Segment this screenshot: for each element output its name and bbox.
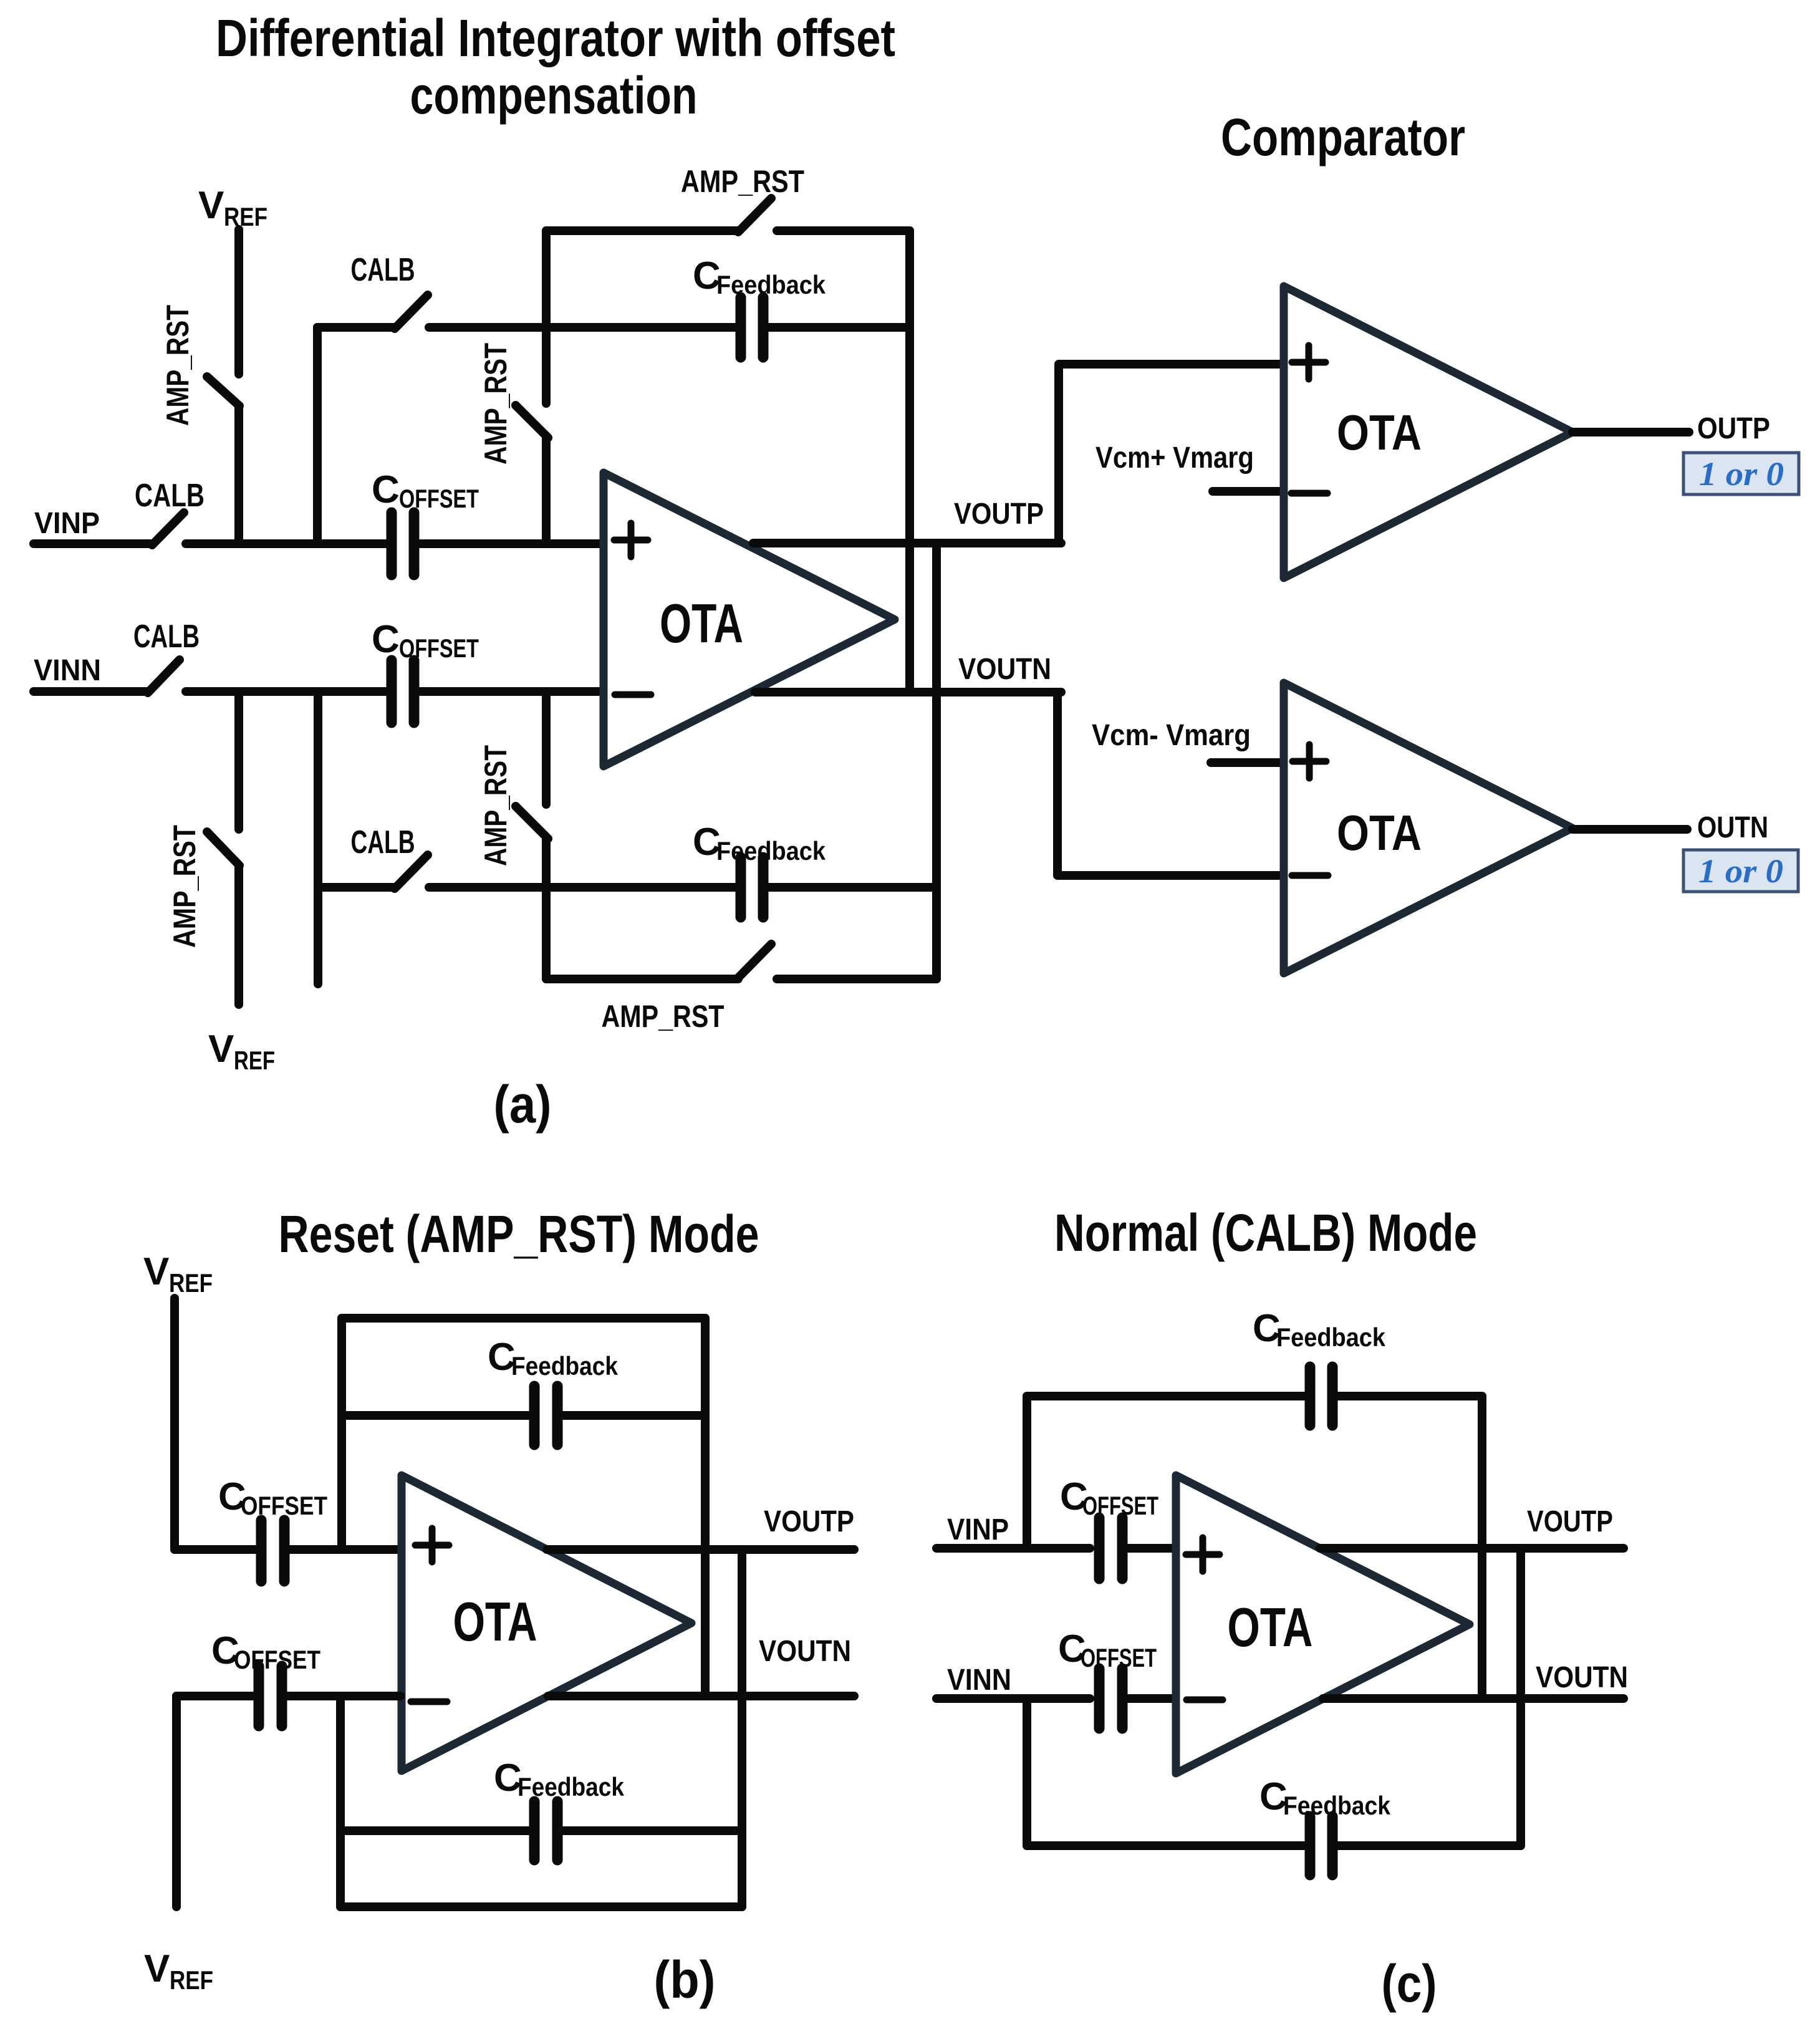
wire AMP_RST bottom line (left segment) [546, 975, 738, 983]
net VREF label (bottom) [208, 1028, 275, 1075]
wire bottom CFeedback line (b) right [563, 1826, 742, 1835]
op-amp U5 OTA (normal mode) [1176, 1475, 1470, 1773]
wire VREF (b) bottom vertical [172, 1696, 181, 1907]
label COFFSET (VINN) [372, 618, 479, 663]
label CALB (bottom loop switch) [351, 824, 415, 860]
svg-text:VINP: VINP [947, 1513, 1009, 1546]
wire VREF bottom vertical (upper segment) [234, 692, 243, 829]
svg-text:OFFSET: OFFSET [1082, 1491, 1158, 1520]
label AMP_RST (rotated, + node switch) [478, 343, 513, 465]
svg-text:OTA: OTA [1337, 405, 1422, 460]
op-amp U2 OTA (comparator OUTP) [1284, 286, 1572, 578]
capacitor CFeedback (bottom loop) [741, 857, 763, 917]
svg-text:(b): (b) [654, 1950, 716, 2009]
node VOUTP label [954, 498, 1044, 531]
switch AMP_RST on - node vertical (arm) [516, 806, 548, 839]
op-amp U3 + input mark [1293, 745, 1326, 778]
wire AMP_RST bottom line (right segment) [777, 975, 936, 983]
svg-text:AMP_RST: AMP_RST [478, 343, 513, 465]
label AMP_RST (rotated, VREF top switch) [160, 305, 195, 426]
svg-text:OTA: OTA [453, 1591, 537, 1652]
svg-text:V: V [198, 184, 224, 227]
svg-text:Reset (AMP_RST) Mode: Reset (AMP_RST) Mode [279, 1205, 759, 1263]
wire CALB top branch vertical [313, 327, 322, 544]
svg-text:CALB: CALB [351, 252, 415, 288]
switch CALB on VINP input (arm) [152, 513, 184, 545]
label AMP_RST (rotated, - node switch) [478, 745, 513, 866]
svg-text:OFFSET: OFFSET [241, 1491, 327, 1520]
wire CALB/CFeedback top line (switch to cap) [429, 323, 735, 332]
svg-text:compensation: compensation [410, 66, 698, 125]
op-amp U2 - input mark [1291, 490, 1327, 497]
capacitor COFFSET (b, + path) [261, 1520, 284, 1581]
svg-text:VINN: VINN [34, 654, 101, 687]
svg-text:REF: REF [234, 1046, 275, 1075]
switch AMP_RST on VREF top branch (arm) [207, 377, 239, 406]
svg-text:Feedback: Feedback [1283, 1791, 1391, 1820]
op-amp U1 label OTA [660, 592, 743, 654]
wire - node vertical to bottom loop (lower segment) [542, 839, 551, 979]
wire VINP rail to COFFSET [186, 539, 385, 548]
label COFFSET (c bottom) [1058, 1627, 1157, 1672]
capacitor CFeedback (c top loop) [1310, 1367, 1332, 1425]
label Vcm+ Vmarg [1095, 441, 1254, 475]
op-amp U2 + input mark [1292, 345, 1326, 379]
svg-text:(c): (c) [1382, 1954, 1437, 2013]
label COFFSET (VINP) [372, 468, 479, 513]
panel label (b) [654, 1950, 716, 2009]
svg-text:Normal (CALB) Mode: Normal (CALB) Mode [1054, 1203, 1477, 1262]
op-amp U4 label OTA [453, 1591, 537, 1652]
wire VOUTN rail (b) [548, 1692, 854, 1700]
label CALB (top loop switch) [351, 252, 415, 288]
capacitor COFFSET (c, + path) [1099, 1518, 1122, 1579]
wire bottom loop line (c) right [1338, 1841, 1521, 1850]
wire + rail (b) COFFSET to OTA [290, 1545, 400, 1554]
node VOUTP label (c) [1527, 1505, 1613, 1538]
wire CALB bottom branch vertical [314, 692, 322, 984]
wire bottom loop bottom line (b, closed AMP_RST) [340, 1902, 742, 1911]
wire upper loop top line (b, closed AMP_RST) [342, 1314, 705, 1323]
op-amp U2 label OTA [1337, 405, 1422, 460]
wire top loop right vertical (c) [1478, 1396, 1486, 1699]
wire - rail (b) from VREF to COFFSET [176, 1692, 253, 1700]
wire + node vertical to rail (lower segment) [542, 438, 551, 544]
wire cross vertical (b, VOUTP to bottom loop) [738, 1550, 746, 1907]
svg-text:Feedback: Feedback [716, 836, 826, 865]
wire CALB/CFeedback bottom line (left of switch) [318, 883, 395, 892]
op-amp U3 OTA (comparator OUTN) [1284, 683, 1572, 973]
node VOUTN label (c) [1536, 1661, 1628, 1694]
label AMP_RST (bottom loop) [602, 999, 725, 1034]
wire bottom loop left vertical (b) [336, 1696, 345, 1907]
wire VREF top vertical (lower segment) [234, 406, 243, 544]
wire VOUTN rail (c) [1323, 1694, 1624, 1703]
svg-text:Feedback: Feedback [1276, 1323, 1386, 1352]
wire CFeedback bottom line (cap to right edge) [769, 883, 936, 892]
output value box 1 or 0 (OUTP) [1683, 453, 1799, 494]
svg-text:CALB: CALB [135, 478, 205, 514]
node VOUTN label (b) [759, 1635, 851, 1668]
wire VOUTP rail [753, 539, 1061, 547]
op-amp U1 OTA (differential integrator) [604, 473, 895, 766]
switch AMP_RST on VREF bottom branch (arm) [207, 832, 239, 865]
svg-text:OFFSET: OFFSET [1081, 1643, 1157, 1672]
label CFeedback (c bottom) [1259, 1775, 1391, 1820]
wire Vcm- Vmarg stub to comparator 2 + input [1211, 758, 1283, 767]
node VOUTN label [958, 653, 1051, 686]
svg-text:OFFSET: OFFSET [234, 1645, 320, 1674]
svg-text:REF: REF [169, 1268, 213, 1298]
node VINP label (c) [947, 1513, 1009, 1546]
wire VREF (b) top vertical [170, 1298, 179, 1550]
svg-text:Comparator: Comparator [1221, 108, 1465, 166]
node OUTN label [1697, 811, 1768, 844]
wire CALB/CFeedback bottom line (switch to cap) [429, 883, 735, 892]
svg-text:1 or 0: 1 or 0 [1698, 852, 1783, 890]
wire VOUTN to comparator 2 - input [1057, 692, 1283, 875]
wire upper CFeedback line (b) right [563, 1411, 705, 1420]
output value box 1 or 0 (OUTN) [1683, 850, 1798, 892]
capacitor CFeedback (c bottom loop) [1310, 1816, 1332, 1875]
wire - node vertical (upper segment) [542, 692, 551, 804]
op-amp U3 label OTA [1337, 805, 1422, 860]
wire VREF bottom vertical (lower segment) [234, 865, 243, 1005]
wire Vcm+ Vmarg stub to comparator 1 - input [1213, 487, 1283, 496]
wire top loop line (c) left [1027, 1392, 1304, 1400]
title: Reset (AMP_RST) Mode [279, 1205, 759, 1263]
wire cross vertical (c, VOUTP to bottom loop) [1516, 1548, 1525, 1846]
wire - rail (b) COFFSET to OTA [287, 1692, 400, 1700]
capacitor COFFSET (VINP path) [392, 513, 414, 575]
svg-text:(a): (a) [494, 1075, 552, 1134]
title: Comparator [1221, 108, 1465, 166]
wire bottom loop left vertical (c) [1023, 1699, 1031, 1846]
svg-text:Feedback: Feedback [511, 1351, 619, 1381]
svg-text:REF: REF [224, 202, 267, 231]
op-amp U1 - input mark [615, 692, 651, 698]
wire CFeedback top line (cap to right edge) [769, 323, 910, 332]
svg-text:V: V [144, 1947, 170, 1990]
wire CALB/CFeedback top line (left of switch) [317, 323, 395, 332]
wire VOUTN rail [755, 688, 1061, 696]
wire top loop right vertical (to VOUTN rail) [905, 231, 914, 692]
title: Normal (CALB) Mode [1054, 1203, 1477, 1262]
wire top loop left vertical (c) [1023, 1396, 1031, 1548]
net VREF label (top) [198, 184, 267, 231]
label CFeedback (bottom loop) [693, 821, 826, 865]
node VINN label [34, 654, 101, 687]
wire upper CFeedback line (b) left [342, 1411, 529, 1420]
svg-text:C: C [372, 468, 400, 511]
svg-text:VOUTP: VOUTP [764, 1505, 854, 1538]
wire bottom CFeedback line (b) left [340, 1826, 529, 1835]
label CFeedback (b bottom) [494, 1757, 625, 1801]
wire VINP input segment [34, 539, 152, 548]
label COFFSET (b top) [218, 1475, 327, 1520]
wire upper loop left vertical (b) [337, 1318, 346, 1550]
wire VOUTP rail (b) [547, 1545, 854, 1554]
capacitor CFeedback (b bottom loop) [534, 1801, 557, 1860]
wire VINN rail to OTA - input [420, 687, 602, 696]
label CFeedback (top loop) [693, 254, 826, 299]
svg-text:AMP_RST: AMP_RST [681, 164, 804, 199]
wire VOUTP to comparator 1 + input [1059, 364, 1283, 543]
capacitor COFFSET (VINN path) [392, 660, 414, 723]
label Vcm- Vmarg [1092, 719, 1251, 752]
label COFFSET (b bottom) [211, 1629, 320, 1674]
svg-text:VOUTP: VOUTP [1527, 1505, 1613, 1538]
svg-text:VOUTN: VOUTN [759, 1635, 851, 1668]
svg-text:AMP_RST: AMP_RST [160, 305, 195, 426]
wire VINN rail to COFFSET [186, 687, 385, 696]
svg-text:V: V [143, 1250, 169, 1293]
capacitor COFFSET (c, - path) [1099, 1669, 1122, 1728]
wire VOUTP rail (c) [1320, 1544, 1624, 1553]
svg-text:Feedback: Feedback [518, 1772, 625, 1801]
svg-text:1 or 0: 1 or 0 [1699, 455, 1784, 493]
wire AMP_RST top line (right segment) [777, 226, 910, 235]
switch AMP_RST top loop (arm) [738, 198, 771, 232]
wire VINP rail to OTA + input [420, 539, 602, 548]
op-amp U3 - input mark [1292, 872, 1328, 879]
node VINP label [34, 507, 100, 540]
op-amp U5 + input mark [1186, 1538, 1220, 1571]
panel label (c) [1382, 1954, 1437, 2013]
wire VINP rail (c) input segment [936, 1544, 1090, 1553]
switch AMP_RST bottom loop (arm) [738, 944, 771, 978]
wire VINP rail (c) to OTA [1128, 1544, 1175, 1553]
wire + node vertical to top loop (upper segment) [542, 231, 551, 403]
svg-text:Feedback: Feedback [716, 270, 826, 299]
wire top loop line (c) right [1338, 1392, 1482, 1400]
svg-text:OFFSET: OFFSET [399, 634, 479, 663]
wire comparator 2 output [1572, 825, 1687, 834]
switch CALB bottom (arm) [395, 855, 428, 889]
svg-text:OUTN: OUTN [1697, 811, 1768, 844]
label CFeedback (b upper) [488, 1336, 619, 1381]
node OUTP label [1697, 412, 1770, 445]
net VREF label (b bottom) [144, 1947, 213, 1995]
label CFeedback (c top) [1253, 1307, 1386, 1352]
op-amp U4 + input mark [415, 1528, 449, 1562]
label CALB (VINP switch) [135, 478, 205, 514]
svg-text:AMP_RST: AMP_RST [167, 825, 202, 948]
label COFFSET (c top) [1060, 1475, 1158, 1520]
svg-text:Vcm+ Vmarg: Vcm+ Vmarg [1095, 441, 1254, 475]
capacitor CFeedback (b upper loop) [534, 1386, 557, 1445]
node VINN label (c) [947, 1664, 1011, 1697]
op-amp U5 - input mark [1187, 1697, 1223, 1704]
wire + rail (b) from VREF to COFFSET [175, 1545, 255, 1554]
svg-text:AMP_RST: AMP_RST [602, 999, 725, 1034]
switch AMP_RST on + node vertical (arm) [516, 405, 548, 438]
switch CALB top (arm) [395, 295, 428, 329]
op-amp U1 + input mark [614, 523, 648, 557]
svg-text:OTA: OTA [1337, 805, 1422, 860]
switch CALB on VINN input (arm) [148, 660, 180, 693]
svg-text:OTA: OTA [1228, 1596, 1313, 1658]
svg-text:CALB: CALB [133, 619, 200, 655]
label AMP_RST (top loop) [681, 164, 804, 199]
svg-text:VINP: VINP [34, 507, 100, 540]
op-amp U5 label OTA [1228, 1596, 1313, 1658]
op-amp U4 OTA (reset mode) [402, 1475, 691, 1771]
svg-text:REF: REF [170, 1965, 213, 1995]
node VOUTP label (b) [764, 1505, 854, 1538]
wire VINN input segment [34, 687, 148, 696]
svg-text:OFFSET: OFFSET [399, 484, 479, 513]
wire AMP_RST top line (left segment) [546, 226, 738, 235]
wire bottom loop line (c) left [1027, 1841, 1304, 1850]
svg-text:V: V [208, 1028, 234, 1071]
title: Differential Integrator with offset compensation [216, 9, 895, 125]
label CALB (VINN switch) [133, 619, 200, 655]
svg-text:OTA: OTA [660, 592, 743, 654]
svg-text:Vcm- Vmarg: Vcm- Vmarg [1092, 719, 1251, 752]
capacitor CFeedback (top loop) [741, 297, 763, 357]
capacitor COFFSET (b, - path) [259, 1666, 282, 1726]
svg-text:VOUTP: VOUTP [954, 498, 1044, 531]
svg-text:VOUTN: VOUTN [958, 653, 1051, 686]
svg-text:Differential Integrator with o: Differential Integrator with offset [216, 9, 895, 67]
wire VINN rail (c) input segment [936, 1694, 1090, 1703]
svg-text:VOUTN: VOUTN [1536, 1661, 1628, 1694]
svg-text:VINN: VINN [947, 1664, 1011, 1697]
wire bottom loop right vertical (to VOUTP rail) [932, 543, 941, 979]
svg-text:OUTP: OUTP [1697, 412, 1770, 445]
wire VINN rail (c) to OTA [1128, 1694, 1175, 1703]
svg-text:C: C [372, 618, 400, 661]
panel label (a) [494, 1075, 552, 1134]
svg-text:CALB: CALB [351, 824, 415, 860]
label AMP_RST (rotated, VREF bottom switch) [167, 825, 202, 948]
op-amp U4 - input mark [411, 1699, 447, 1705]
net VREF label (b top) [143, 1250, 213, 1298]
svg-text:AMP_RST: AMP_RST [478, 745, 513, 866]
wire VREF top vertical (upper segment) [234, 229, 243, 374]
wire upper loop right vertical (b) [701, 1318, 710, 1696]
wire comparator 1 output [1572, 428, 1689, 436]
